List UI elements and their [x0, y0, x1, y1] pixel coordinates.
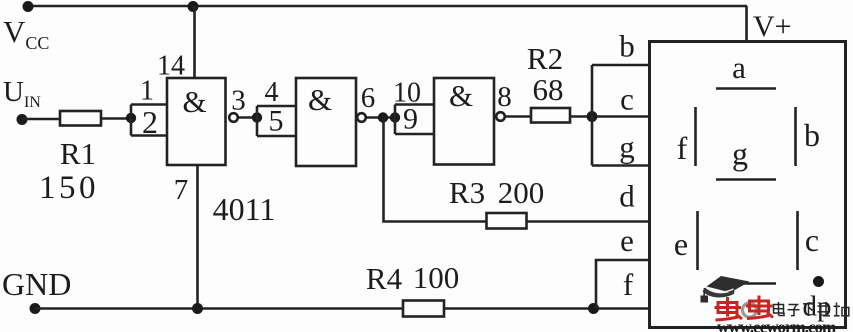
svg-text:b: b [804, 117, 820, 153]
svg-text:c: c [620, 82, 634, 117]
svg-text:c: c [805, 222, 819, 258]
svg-text:f: f [677, 130, 688, 166]
gate U1C 4011 [434, 78, 494, 165]
svg-text:8: 8 [497, 81, 512, 113]
segment a bar [716, 87, 776, 90]
segment b bar [794, 107, 797, 166]
svg-text:www.eeworm.com: www.eeworm.com [717, 318, 836, 332]
svg-text:4: 4 [265, 77, 279, 108]
node gate2 input junction [252, 112, 262, 122]
svg-text:200: 200 [498, 175, 545, 210]
svg-text:68: 68 [533, 72, 564, 107]
wire pin7 to GND [196, 165, 199, 309]
svg-text:14: 14 [157, 51, 185, 82]
svg-text:3: 3 [231, 85, 246, 117]
wire pin14 drop [193, 6, 196, 78]
svg-text:7: 7 [174, 174, 189, 206]
wire R3 to display pin d [527, 220, 652, 223]
segment f bar [694, 107, 697, 166]
svg-text:e: e [620, 223, 634, 258]
gate U1A output bubble [229, 113, 238, 122]
svg-text:150: 150 [39, 170, 99, 206]
wire gate3 input bracket [395, 105, 434, 135]
svg-text:&: & [449, 78, 473, 113]
wire Uin to R1 [22, 118, 60, 121]
resistor R2 [531, 108, 570, 123]
svg-text:b: b [619, 29, 635, 64]
wire V+ drop [745, 6, 748, 42]
watermark red char chong 1 [715, 297, 743, 320]
watermark graduation cap [701, 276, 750, 303]
svg-text:R4: R4 [366, 261, 403, 296]
svg-text:GND: GND [2, 266, 71, 302]
wire bcg bracket [592, 65, 651, 166]
gate U1B 4011 [296, 78, 356, 166]
wire R3 branch [384, 118, 487, 222]
node gate1 input junction [126, 113, 136, 123]
watermark text dianzi xiazaizhan [774, 302, 849, 316]
wire GND rail [35, 307, 651, 310]
node gate3 input junction [390, 112, 400, 122]
svg-text:9: 9 [403, 103, 418, 136]
wire gate2 input bracket [257, 106, 296, 136]
svg-text:a: a [732, 50, 746, 85]
watermark red char chong 2 [746, 296, 773, 319]
wire R1 to gate1 input [101, 117, 131, 120]
svg-text:6: 6 [361, 82, 376, 114]
watermark gray ring [743, 303, 757, 317]
svg-text:1: 1 [140, 76, 154, 107]
node pin7 GND junction [192, 303, 203, 314]
svg-text:&: & [182, 84, 206, 119]
gate U1A 4011 [167, 78, 226, 165]
svg-text:e: e [674, 226, 688, 262]
wire gate2 to gate3 [366, 116, 395, 119]
gate U1C output bubble [496, 112, 505, 121]
wire Vcc top rail [28, 5, 747, 8]
svg-text:2: 2 [142, 104, 158, 140]
svg-text:f: f [623, 267, 634, 302]
node R3 branch junction [378, 112, 388, 122]
svg-text:4011: 4011 [213, 191, 276, 227]
wire R2 to display [570, 115, 651, 118]
resistor R4 [403, 301, 444, 317]
svg-text:5: 5 [269, 105, 284, 138]
svg-text:g: g [732, 136, 748, 172]
svg-text:R1: R1 [60, 136, 96, 171]
wire pin e bracket [596, 260, 651, 309]
wire gate3 to R2 [505, 115, 531, 118]
decimal point dp [813, 276, 824, 287]
resistor R3 [487, 213, 527, 229]
svg-text:g: g [619, 130, 635, 165]
svg-text:d: d [619, 179, 635, 214]
node Vcc terminal [23, 1, 34, 12]
node ef junction [588, 303, 599, 314]
segment e bar [696, 211, 699, 270]
node Uin terminal [17, 114, 28, 125]
node top rail junction pin14 [188, 1, 199, 12]
svg-text:&: & [308, 82, 332, 117]
wire gate1 input bracket [131, 105, 167, 136]
resistor R1 [60, 111, 101, 126]
svg-text:R2: R2 [527, 41, 563, 76]
segment g bar [716, 178, 776, 181]
display U2 7-segment [650, 42, 846, 328]
segment d bar [716, 282, 776, 285]
node GND terminal [30, 303, 41, 314]
svg-text:R3: R3 [449, 175, 485, 210]
gate U1B output bubble [357, 113, 366, 122]
svg-text:100: 100 [413, 260, 460, 295]
segment c bar [796, 211, 799, 270]
svg-text:V+: V+ [753, 10, 792, 43]
wire gate1 to gate2 [238, 116, 257, 119]
node bcg junction [587, 111, 598, 122]
